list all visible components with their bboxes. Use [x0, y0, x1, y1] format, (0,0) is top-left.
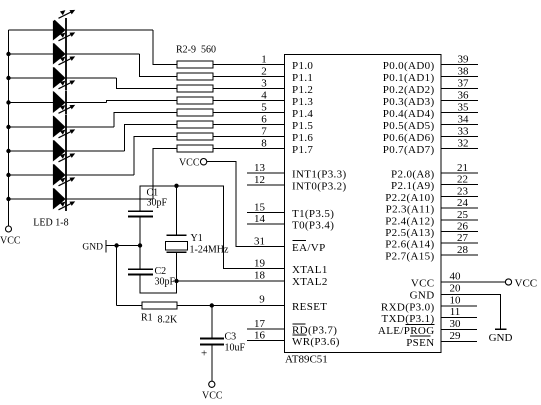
wire LED7 cathode	[66, 174, 134, 176]
node LED7 anode junction	[6, 173, 10, 177]
ground GND symbol left	[82, 240, 105, 253]
pin number 27	[457, 232, 469, 244]
pin number 5	[261, 102, 267, 114]
svg-text:P1.0: P1.0	[292, 60, 313, 72]
LED light arrows pair 4	[52, 80, 75, 90]
wire XTAL1 net: C1 top, Y1 top, pin 19	[140, 186, 285, 269]
overline EA	[293, 240, 307, 242]
svg-text:40: 40	[450, 271, 462, 283]
pin number 3	[261, 78, 267, 90]
svg-text:38: 38	[458, 66, 470, 78]
pin number 30	[450, 318, 462, 330]
resistor R4 560	[177, 85, 213, 92]
pin number 18	[254, 270, 266, 282]
pin number 10	[450, 295, 462, 307]
LED D1	[53, 18, 67, 42]
svg-text:31: 31	[254, 236, 265, 248]
pin number 23	[457, 185, 469, 197]
svg-text:GND: GND	[489, 332, 513, 344]
wire R4 to pin 3	[213, 88, 285, 90]
svg-text:GND: GND	[410, 290, 435, 302]
svg-text:1: 1	[261, 54, 267, 66]
wire R1 to RESET pin 9	[177, 305, 285, 307]
svg-text:6: 6	[261, 114, 267, 126]
LED light arrows pair 5	[52, 105, 75, 115]
svg-text:37: 37	[458, 78, 470, 90]
wire LED4 cathode	[66, 102, 107, 104]
svg-text:P1.5: P1.5	[292, 120, 313, 132]
U1 left pin labels	[292, 60, 347, 348]
svg-text:7: 7	[261, 126, 267, 138]
svg-text:P2.6(A14): P2.6(A14)	[385, 239, 434, 251]
wire R7 to pin 6	[213, 124, 285, 126]
wire VCC bus left	[8, 30, 10, 226]
wire XTAL2 to pin 18	[177, 280, 285, 282]
wire pin 40 to VCC	[441, 281, 505, 283]
wire pin 15 stub	[247, 212, 285, 214]
pin number 38	[458, 66, 470, 78]
svg-text:P1.7: P1.7	[292, 144, 313, 156]
svg-text:P2.7(A15): P2.7(A15)	[385, 250, 434, 262]
svg-text:P1.1: P1.1	[292, 72, 313, 84]
pin number 20	[450, 283, 462, 295]
svg-text:24: 24	[457, 197, 469, 209]
LED D7	[53, 163, 67, 187]
wire LED3 to R4	[117, 78, 178, 89]
svg-text:29: 29	[450, 330, 462, 342]
wire pin 12 stub	[247, 184, 285, 186]
pin number 13	[254, 162, 266, 174]
svg-text:27: 27	[457, 232, 469, 244]
LED light arrows pair 2	[52, 32, 75, 42]
capacitor C1 30pF	[128, 211, 153, 216]
node LED5 anode junction	[6, 125, 10, 129]
svg-text:14: 14	[254, 213, 266, 225]
resistor R2 560	[177, 61, 213, 68]
LED D3	[53, 66, 67, 90]
node Y1 top junction	[174, 184, 178, 188]
svg-text:15: 15	[254, 202, 266, 214]
svg-text:30: 30	[450, 318, 462, 330]
LED light arrows pair 9	[52, 201, 75, 211]
svg-text:VCC: VCC	[202, 391, 223, 402]
resistor R3 560	[177, 73, 213, 80]
label C1	[147, 188, 159, 199]
LED D8	[53, 187, 67, 211]
pin number 19	[254, 258, 266, 270]
svg-text:XTAL1: XTAL1	[292, 264, 328, 276]
svg-text:8.2K: 8.2K	[158, 315, 179, 326]
LED D4	[53, 91, 67, 115]
svg-text:XTAL2: XTAL2	[292, 276, 328, 288]
svg-text:P1.6: P1.6	[292, 132, 313, 144]
node RESET-C3 junction	[210, 303, 214, 307]
svg-text:8: 8	[261, 138, 267, 150]
label LED 1-8	[33, 218, 68, 229]
pin number 37	[458, 78, 470, 90]
svg-text:INT0(P3.2): INT0(P3.2)	[292, 181, 347, 193]
svg-text:33: 33	[458, 126, 470, 138]
svg-text:16: 16	[254, 330, 266, 342]
svg-text:EA/VP: EA/VP	[292, 242, 326, 254]
svg-text:3: 3	[261, 78, 267, 90]
wire LED8 to R9	[153, 149, 177, 200]
node LED3 anode junction	[6, 76, 10, 80]
svg-text:9: 9	[259, 294, 265, 306]
wire LED8 cathode	[66, 198, 153, 200]
svg-text:P1.2: P1.2	[292, 84, 313, 96]
svg-text:R2-9 560: R2-9 560	[176, 45, 216, 56]
svg-text:P0.7(AD7): P0.7(AD7)	[383, 144, 435, 156]
pin number 9	[259, 294, 265, 306]
pin number 15	[254, 202, 266, 214]
label 1-24MHz	[190, 245, 229, 256]
svg-text:10: 10	[450, 295, 462, 307]
svg-text:VCC: VCC	[179, 158, 200, 169]
label 8.2K	[158, 315, 179, 326]
overline WR	[293, 334, 307, 336]
wire R9 to pin 8	[213, 148, 285, 150]
svg-text:+: +	[201, 348, 207, 360]
svg-text:36: 36	[458, 90, 470, 102]
svg-text:P1.4: P1.4	[292, 108, 313, 120]
svg-text:P2.0(A8): P2.0(A8)	[391, 169, 434, 181]
svg-text:P0.4(AD4): P0.4(AD4)	[383, 108, 435, 120]
svg-text:2: 2	[261, 66, 267, 78]
LED D6	[53, 139, 67, 163]
svg-text:34: 34	[458, 114, 470, 126]
pin number 17	[254, 318, 266, 330]
resistor R5 560	[177, 97, 213, 104]
svg-text:30pF: 30pF	[155, 277, 176, 288]
label 30pF	[147, 198, 168, 209]
ground GND symbol right	[489, 329, 513, 344]
svg-text:11: 11	[450, 306, 461, 318]
wire LED7 to R8	[134, 137, 177, 176]
label C3	[225, 332, 237, 343]
pin number 24	[457, 197, 469, 209]
capacitor C3 10uF electrolytic	[200, 339, 224, 360]
svg-text:P0.6(AD6): P0.6(AD6)	[383, 132, 435, 144]
svg-text:VCC: VCC	[0, 236, 21, 247]
svg-text:30pF: 30pF	[147, 198, 168, 209]
pin number 32	[458, 138, 469, 150]
wire pin 20 to GND	[441, 294, 501, 329]
wire pin 17 stub	[247, 328, 285, 330]
svg-text:20: 20	[450, 283, 462, 295]
LED light arrows pair 1	[52, 10, 75, 20]
svg-text:18: 18	[254, 270, 266, 282]
wire pin 35 stub	[441, 112, 478, 114]
wire pin 24 stub	[441, 207, 478, 209]
wire R8 to pin 7	[213, 136, 285, 138]
pin number 1	[261, 54, 267, 66]
svg-text:RXD(P3.0): RXD(P3.0)	[381, 302, 435, 314]
resistor R6 560	[177, 109, 213, 116]
svg-text:1-24MHz: 1-24MHz	[190, 245, 229, 256]
svg-text:Y1: Y1	[191, 233, 203, 244]
wire pin 38 stub	[441, 76, 478, 78]
wire pin 32 stub	[441, 148, 478, 150]
wire pin 14 stub	[247, 223, 285, 225]
wire LED5 cathode	[66, 126, 114, 128]
wire LED2 to R3	[140, 54, 178, 77]
svg-text:AT89C51: AT89C51	[285, 354, 328, 366]
wire LED1 anode	[9, 29, 53, 31]
LED light arrows pair 6	[52, 129, 75, 139]
pin number 2	[261, 66, 267, 78]
LED light arrows pair 7	[52, 153, 75, 163]
pin number 4	[261, 90, 267, 102]
wire pin 37 stub	[441, 88, 478, 90]
pin number 22	[457, 174, 468, 186]
power VCC terminal bottom	[202, 381, 223, 401]
node LED6 anode junction	[6, 149, 10, 153]
svg-text:19: 19	[254, 258, 266, 270]
svg-text:ALE/PROG: ALE/PROG	[378, 325, 435, 337]
resistor R8 560	[177, 133, 213, 140]
wire pin 27 stub	[441, 242, 478, 244]
label 10uF	[225, 343, 246, 354]
pin number 35	[458, 102, 470, 114]
wire LED3 cathode	[66, 77, 117, 79]
pin number 40	[450, 271, 462, 283]
pin number 7	[261, 126, 267, 138]
svg-text:WR(P3.6): WR(P3.6)	[292, 336, 340, 348]
U1 right pin labels	[378, 60, 435, 349]
resistor R7 560	[177, 121, 213, 128]
wire to R1 left	[117, 305, 142, 307]
label 30pF C2	[155, 277, 176, 288]
wire LED5 to R6	[114, 113, 177, 128]
pin number 8	[261, 138, 267, 150]
svg-text:26: 26	[457, 221, 469, 233]
pin number 28	[457, 244, 469, 256]
svg-text:13: 13	[254, 162, 266, 174]
svg-text:RESET: RESET	[292, 301, 327, 313]
wire R3 to pin 2	[213, 76, 285, 78]
wire Y1 bottom stem to bottom rail	[140, 252, 177, 293]
wire pin 26 stub	[441, 231, 478, 233]
wire LED1 cathode	[66, 29, 153, 31]
pin number 11	[450, 306, 461, 318]
svg-text:10uF: 10uF	[225, 343, 246, 354]
svg-text:C2: C2	[155, 266, 167, 277]
wire LED6 to R7	[125, 125, 178, 152]
svg-text:28: 28	[457, 244, 469, 256]
wire LED2 anode	[9, 53, 53, 55]
svg-text:R1: R1	[141, 313, 153, 324]
pin number 36	[458, 90, 470, 102]
svg-text:P0.5(AD5): P0.5(AD5)	[383, 120, 435, 132]
svg-text:LED 1-8: LED 1-8	[33, 218, 68, 229]
wire LED2 cathode	[66, 53, 140, 55]
label C2	[155, 266, 167, 277]
wire VCC to pin 31 EA/VP	[207, 162, 285, 247]
svg-text:GND: GND	[82, 243, 103, 253]
svg-text:P2.2(A10): P2.2(A10)	[385, 192, 434, 204]
wire R2 to pin 1	[213, 64, 285, 66]
overline PROG	[406, 323, 435, 325]
node XTAL2 junction	[174, 279, 178, 283]
svg-text:P0.3(AD3): P0.3(AD3)	[383, 96, 435, 108]
op-amp U1 AT89C51 body	[285, 55, 442, 353]
power VCC terminal right	[505, 278, 537, 290]
svg-text:TXD(P3.1): TXD(P3.1)	[382, 313, 435, 325]
wire LED5 anode	[9, 126, 53, 128]
label R1	[141, 313, 153, 324]
svg-text:VCC: VCC	[515, 278, 538, 290]
svg-text:P1.3: P1.3	[292, 96, 313, 108]
svg-text:P0.0(AD0): P0.0(AD0)	[383, 60, 435, 72]
wire pin 36 stub	[441, 100, 478, 102]
svg-text:P0.2(AD2): P0.2(AD2)	[383, 84, 435, 96]
svg-text:35: 35	[458, 102, 470, 114]
pin number 26	[457, 221, 469, 233]
wire pin 30 stub	[441, 329, 477, 331]
node LED2 anode junction	[6, 52, 10, 56]
svg-text:21: 21	[457, 162, 468, 174]
resistor R9 560	[177, 145, 213, 152]
LED light arrows pair 3	[52, 56, 75, 66]
label R2-9 560	[176, 45, 216, 56]
svg-text:25: 25	[457, 209, 469, 221]
pin number 29	[450, 330, 462, 342]
node LED8 anode junction	[6, 197, 10, 201]
pin number 25	[457, 209, 469, 221]
wire pin 13 stub	[247, 172, 285, 174]
label Y1	[191, 233, 203, 244]
wire LED6 cathode	[66, 150, 125, 152]
svg-text:5: 5	[261, 102, 267, 114]
wire C1 bottom to GND rail	[139, 216, 141, 245]
svg-text:17: 17	[254, 318, 266, 330]
svg-text:T0(P3.4): T0(P3.4)	[292, 220, 334, 232]
wire pin 33 stub	[441, 136, 478, 138]
svg-text:23: 23	[457, 185, 469, 197]
svg-text:32: 32	[458, 138, 469, 150]
wire C3 bottom stem	[211, 345, 213, 381]
wire pin 39 stub	[441, 64, 478, 66]
wire pin 11 stub	[441, 317, 477, 319]
svg-text:P0.1(AD1): P0.1(AD1)	[383, 72, 435, 84]
pin number 34	[458, 114, 470, 126]
node GND-C1C2 junction	[138, 243, 142, 247]
pin number 21	[457, 162, 468, 174]
overline RD	[293, 323, 306, 325]
wire R5 to pin 4	[213, 100, 285, 102]
pin number 33	[458, 126, 470, 138]
svg-text:C3: C3	[225, 332, 237, 343]
wire Y1 top stem	[176, 186, 178, 236]
svg-text:VCC: VCC	[411, 278, 435, 290]
wire LED8 anode	[9, 198, 53, 200]
wire GND to C2 top	[139, 246, 141, 270]
svg-text:22: 22	[457, 174, 468, 186]
wire GND rail	[106, 245, 140, 247]
node GND-R1 junction	[114, 243, 118, 247]
wire pin 16 stub	[247, 340, 285, 342]
power VCC terminal bottom left	[0, 226, 21, 247]
wire R6 to pin 5	[213, 112, 285, 114]
LED D5	[53, 115, 67, 139]
pin number 12	[254, 174, 265, 186]
svg-text:T1(P3.5): T1(P3.5)	[292, 208, 334, 220]
svg-text:P2.3(A11): P2.3(A11)	[386, 204, 435, 216]
wire LED7 anode	[9, 174, 53, 176]
wire LED1 to R2	[153, 30, 177, 65]
wire C3 top stem	[211, 306, 213, 338]
resistor R1 8.2K	[142, 302, 177, 309]
wire pin 25 stub	[441, 219, 478, 221]
power VCC terminal near U1	[179, 158, 207, 169]
pin number 31	[254, 236, 265, 248]
svg-text:P2.4(A12): P2.4(A12)	[385, 215, 434, 227]
label AT89C51	[285, 354, 328, 366]
pin number 14	[254, 213, 266, 225]
LED light arrows pair 8	[52, 177, 75, 187]
wire LED4 anode	[9, 102, 53, 104]
svg-text:P2.1(A9): P2.1(A9)	[391, 180, 434, 192]
wire LED3 anode	[9, 77, 53, 79]
crystal Y1	[166, 235, 188, 252]
svg-text:12: 12	[254, 174, 265, 186]
wire pin 22 stub	[441, 184, 478, 186]
wire pin 23 stub	[441, 195, 478, 197]
pin number 16	[254, 330, 266, 342]
wire pin 10 stub	[441, 305, 477, 307]
wire GND down to R1	[116, 246, 118, 306]
wire pin 34 stub	[441, 124, 478, 126]
overline PSEN	[410, 335, 431, 337]
wire LED4 to R5	[107, 101, 178, 103]
svg-text:39: 39	[458, 54, 470, 66]
svg-text:INT1(P3.3): INT1(P3.3)	[292, 169, 347, 181]
node LED4 anode junction	[6, 100, 10, 104]
pin number 6	[261, 114, 267, 126]
svg-text:4: 4	[261, 90, 267, 102]
capacitor C2 30pF	[128, 269, 153, 274]
wire pin 28 stub	[441, 254, 478, 256]
LED D2	[53, 42, 67, 66]
wire LED6 anode	[9, 150, 53, 152]
wire pin 21 stub	[441, 172, 478, 174]
wire pin 29 stub	[441, 341, 477, 343]
svg-text:PSEN: PSEN	[406, 337, 434, 349]
pin number 39	[458, 54, 470, 66]
svg-text:P2.5(A13): P2.5(A13)	[385, 227, 434, 239]
